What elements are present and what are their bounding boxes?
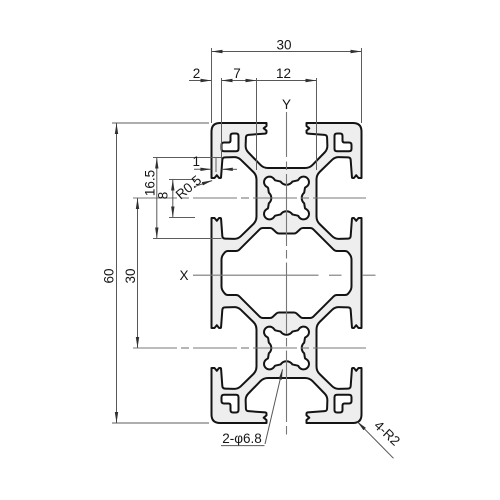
svg-text:1: 1 (192, 154, 200, 169)
dimension 8 (169, 179, 195, 181)
svg-text:30: 30 (276, 38, 291, 53)
dimension 16.5 (153, 157, 222, 159)
corner screw channel bottom-left (222, 395, 239, 413)
X axis center line (193, 274, 319, 276)
dimension chain 2 7 12 (221, 78, 223, 160)
dimension 30 (left, cavity pitch) (137, 198, 139, 348)
center octagonal cavity (222, 228, 352, 318)
svg-text:12: 12 (276, 66, 291, 81)
svg-text:60: 60 (102, 268, 117, 283)
dimension 30 (top overall width) (211, 48, 213, 123)
upper cavity center line (133, 197, 177, 199)
svg-text:Y: Y (282, 97, 291, 112)
extrusion profile body (30x60 cross-section outline with T-slots) (212, 123, 362, 423)
corner screw channel top-left (222, 134, 239, 152)
leader 4-R2 (358, 422, 394, 459)
dimension 60 (left overall height) (112, 122, 209, 124)
corner screw channel top-right (335, 134, 352, 152)
lower cavity center line (133, 347, 177, 349)
svg-text:8: 8 (156, 192, 171, 200)
svg-text:X: X (179, 268, 188, 283)
upper tap hole 6.8 (clover) (264, 177, 309, 220)
svg-text:2-φ6.8: 2-φ6.8 (222, 431, 262, 446)
svg-text:2: 2 (193, 66, 201, 81)
corner screw channel bottom-right (335, 395, 352, 413)
dimension 1 (lip tip) (215, 157, 217, 172)
svg-text:7: 7 (233, 66, 241, 81)
lower tap hole 6.8 (clover) (264, 327, 309, 370)
Y axis center line (286, 112, 288, 157)
svg-text:30: 30 (123, 268, 138, 283)
leader R0.5 (194, 181, 212, 187)
